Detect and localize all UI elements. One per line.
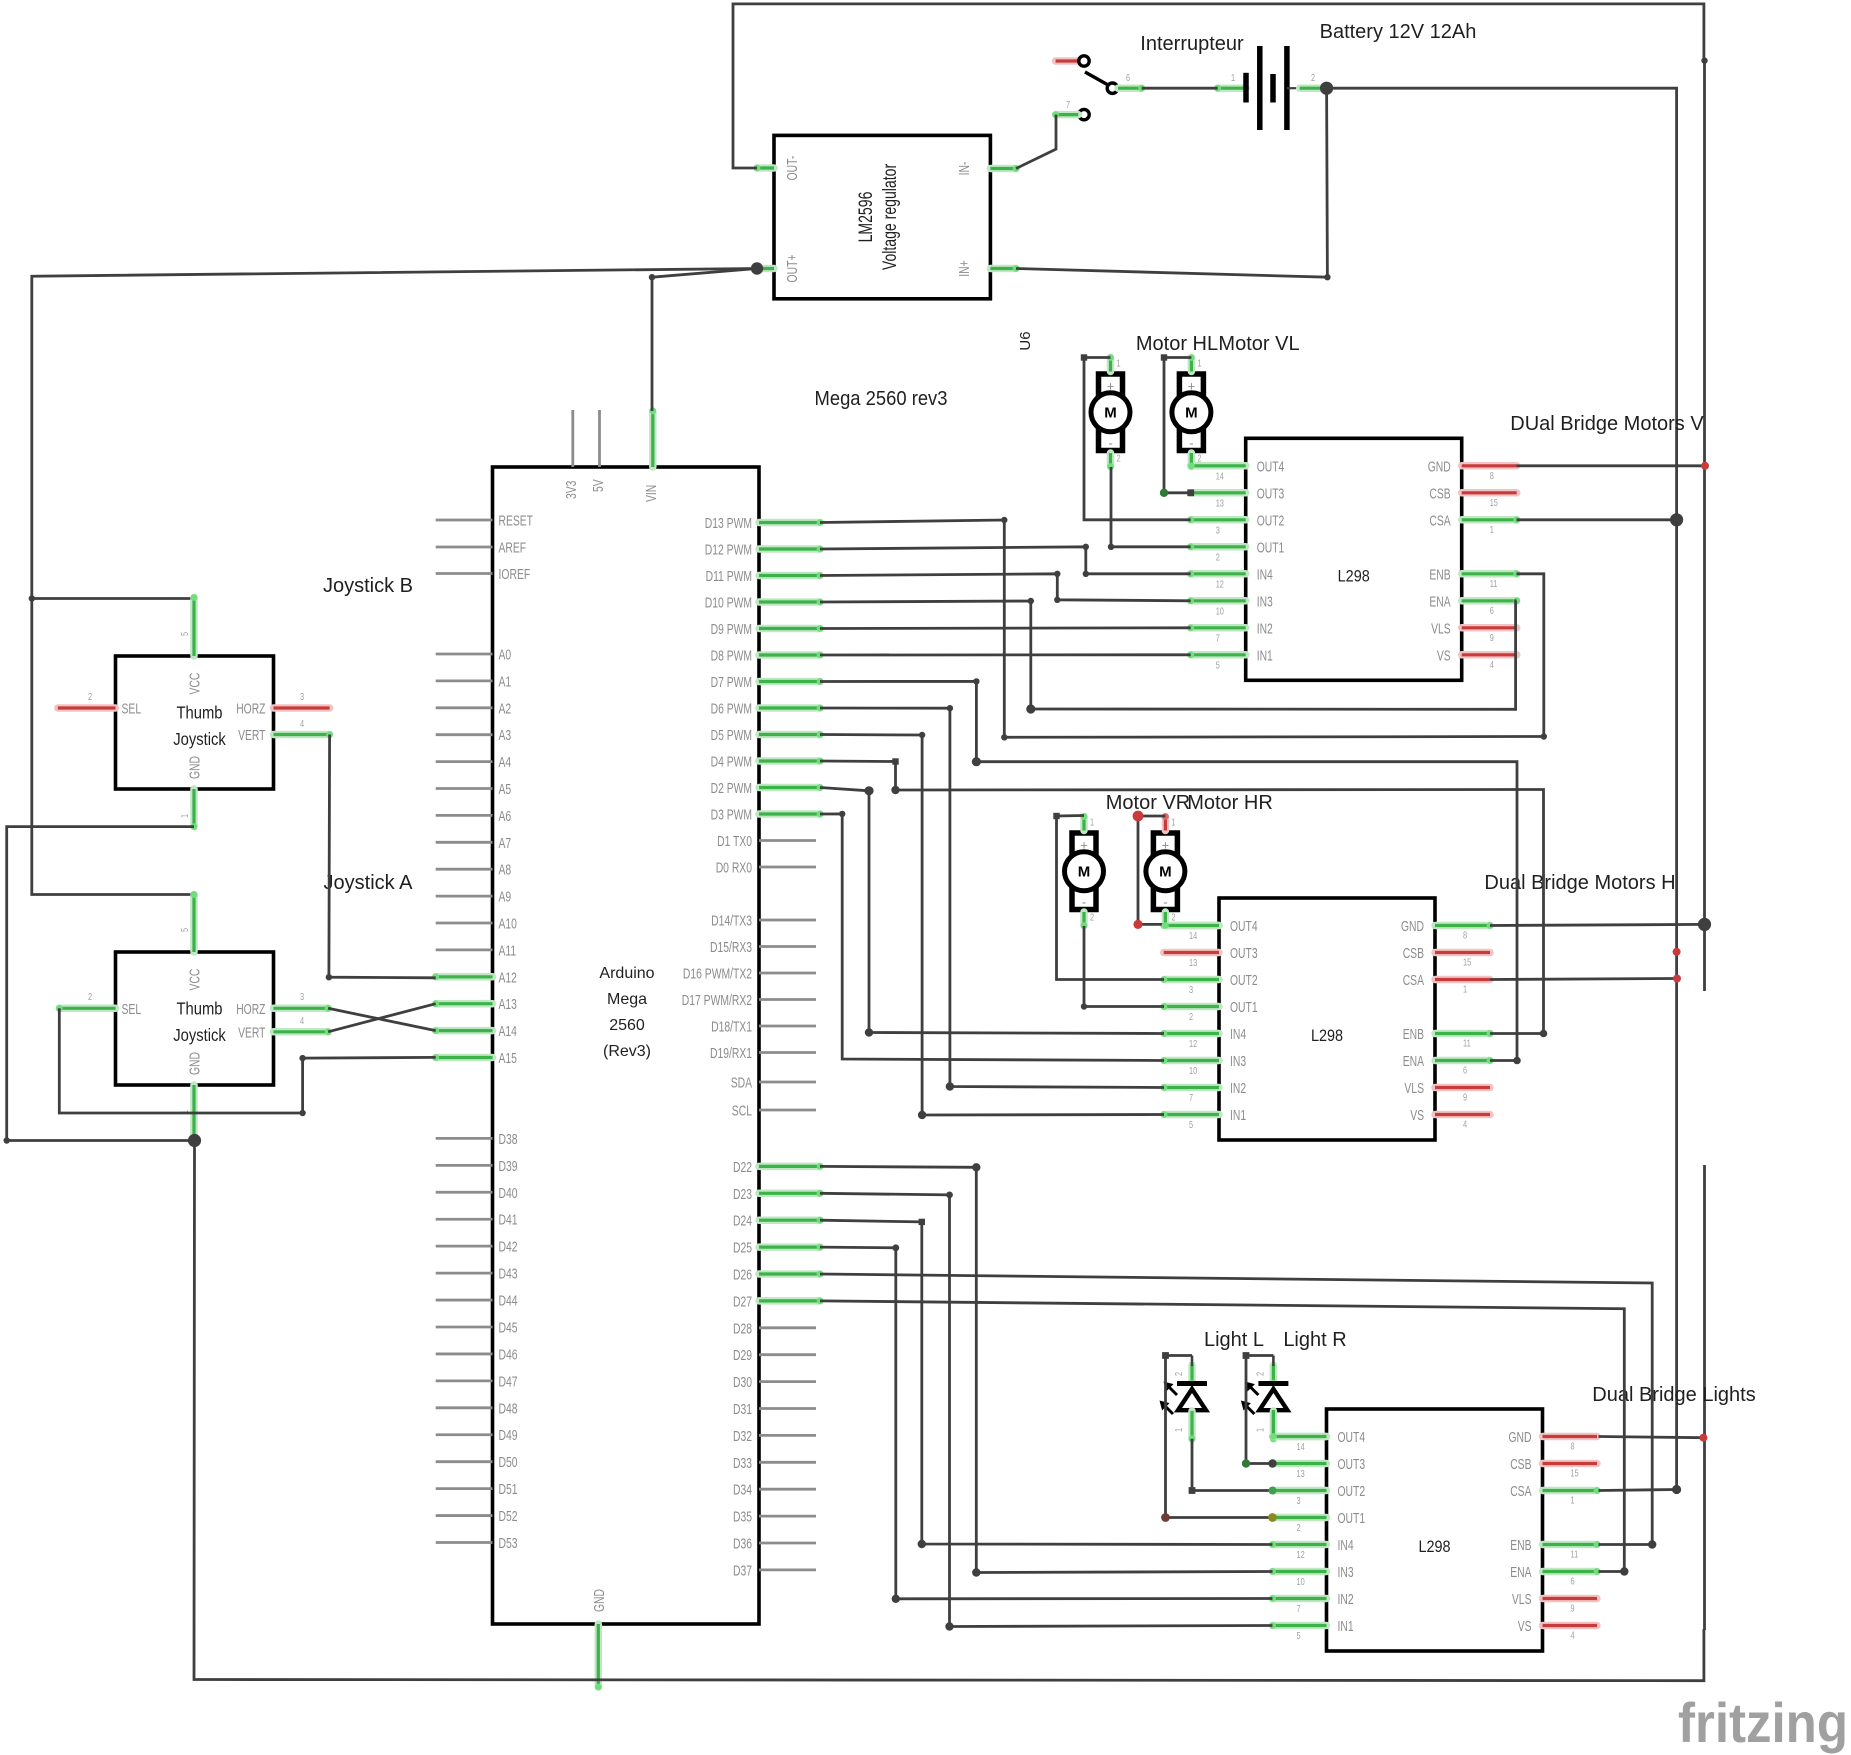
svg-text:A3: A3 bbox=[499, 728, 512, 744]
svg-text:14: 14 bbox=[1216, 470, 1224, 482]
wire D5 to IN1-H bbox=[820, 735, 1164, 1116]
Arduino pin D7 PWM bbox=[759, 678, 820, 686]
svg-text:A0: A0 bbox=[499, 648, 512, 664]
red endpoint 12V bus segment bbox=[1673, 948, 1681, 956]
svg-text:6: 6 bbox=[1571, 1576, 1575, 1588]
L298-V pin IN2 bbox=[1191, 624, 1246, 632]
svg-text:SEL: SEL bbox=[122, 1002, 142, 1018]
svg-text:IN2: IN2 bbox=[1230, 1081, 1246, 1097]
svg-text:IN3: IN3 bbox=[1230, 1054, 1246, 1070]
OUT2-L wire end bbox=[1269, 1487, 1277, 1495]
Arduino pin D16 PWM/TX2 bbox=[759, 972, 816, 975]
svg-text:A15: A15 bbox=[499, 1051, 517, 1067]
svg-text:D46: D46 bbox=[499, 1347, 518, 1363]
svg-text:ENA: ENA bbox=[1510, 1565, 1532, 1581]
bend ground loop bbox=[3, 1137, 9, 1143]
svg-text:1: 1 bbox=[1197, 358, 1201, 370]
svg-text:3: 3 bbox=[300, 691, 304, 703]
svg-text:D29: D29 bbox=[733, 1348, 752, 1364]
Arduino pin D31 bbox=[759, 1407, 816, 1410]
svg-text:D40: D40 bbox=[499, 1186, 518, 1202]
OUT+ junction node bbox=[751, 262, 763, 274]
wire CSA-V to 12V bus bbox=[1517, 518, 1677, 521]
LM2596 pin OUT+ bbox=[757, 265, 774, 273]
ground junction node bbox=[188, 1134, 201, 1147]
svg-text:L298: L298 bbox=[1338, 566, 1370, 585]
wire D22 to IN3-L bbox=[820, 1166, 1273, 1572]
Arduino pin IOREF bbox=[436, 572, 493, 575]
svg-text:2: 2 bbox=[1171, 912, 1175, 924]
wire motor HL pin2 to OUT1-V bbox=[1111, 467, 1191, 547]
svg-text:3V3: 3V3 bbox=[564, 481, 580, 499]
L298-L pin VS bbox=[1543, 1622, 1598, 1630]
svg-text:D47: D47 bbox=[499, 1374, 518, 1390]
svg-text:A12: A12 bbox=[499, 970, 517, 986]
L298-V pin OUT4 bbox=[1191, 462, 1246, 470]
svg-text:1: 1 bbox=[1463, 984, 1467, 996]
light R pin2 wire overlap bbox=[1272, 1356, 1275, 1367]
svg-text:D48: D48 bbox=[499, 1401, 518, 1417]
Arduino pin D6 PWM bbox=[759, 704, 820, 712]
svg-text:D24: D24 bbox=[733, 1214, 752, 1230]
battery long plate 1 bbox=[1257, 46, 1263, 130]
L298-H pin IN4 bbox=[1164, 1030, 1219, 1038]
bend VIN wire bbox=[649, 274, 655, 280]
bend D4 b bbox=[891, 786, 899, 794]
Arduino pin D11 PWM bbox=[759, 572, 820, 580]
svg-text:Thumb: Thumb bbox=[177, 999, 223, 1019]
svg-text:OUT1: OUT1 bbox=[1257, 540, 1285, 556]
L298-L pin OUT2 bbox=[1273, 1487, 1327, 1495]
svg-text:4: 4 bbox=[300, 718, 304, 730]
wire IN- to switch pin 7 bbox=[1016, 115, 1056, 169]
L298-H pin OUT3 bbox=[1164, 949, 1219, 957]
joystick B pin SEL bbox=[58, 704, 116, 712]
Arduino pin D34 bbox=[759, 1488, 816, 1491]
bend D6 a bbox=[947, 705, 953, 711]
svg-text:8: 8 bbox=[1490, 470, 1494, 482]
Arduino pin D28 bbox=[759, 1326, 816, 1329]
svg-text:A9: A9 bbox=[499, 890, 512, 906]
svg-text:IN1: IN1 bbox=[1230, 1108, 1246, 1124]
svg-text:5: 5 bbox=[179, 928, 191, 932]
bend D25 a bbox=[892, 1244, 899, 1251]
wire light L pin1 to OUT2-L bbox=[1192, 1439, 1273, 1491]
svg-text:D26: D26 bbox=[733, 1268, 752, 1284]
svg-text:5: 5 bbox=[1189, 1119, 1193, 1131]
svg-text:10: 10 bbox=[1216, 605, 1224, 617]
svg-text:D30: D30 bbox=[733, 1375, 752, 1391]
Arduino pin A8 bbox=[436, 868, 493, 871]
L298-V pin ENB bbox=[1462, 570, 1517, 578]
svg-text:2: 2 bbox=[1216, 551, 1220, 563]
Arduino pin D35 bbox=[759, 1515, 816, 1518]
LED light L light arrow 2 bbox=[1164, 1405, 1173, 1414]
joystick B pin VERT bbox=[274, 731, 330, 739]
ground bottom bus wire bbox=[194, 1141, 1704, 1681]
red endpoint motor HR wire bottom bbox=[1133, 920, 1142, 929]
wire light R pin2 to OUT3-L bbox=[1246, 1356, 1273, 1464]
OUT3-V wire end bbox=[1187, 489, 1194, 496]
Arduino pin D46 bbox=[436, 1353, 493, 1356]
wire joystick A SEL to A15 bbox=[59, 1008, 435, 1113]
red endpoint GND-L bbox=[1699, 1434, 1707, 1442]
svg-text:2: 2 bbox=[1090, 912, 1094, 924]
svg-text:GND: GND bbox=[1509, 1430, 1532, 1446]
svg-text:1: 1 bbox=[179, 814, 191, 818]
svg-text:IN4: IN4 bbox=[1338, 1538, 1354, 1554]
svg-text:Light R: Light R bbox=[1283, 1329, 1346, 1351]
svg-text:5: 5 bbox=[1216, 659, 1220, 671]
svg-text:11: 11 bbox=[1463, 1038, 1471, 1050]
L298-H pin GND bbox=[1435, 922, 1490, 930]
Arduino Mega 2560 body bbox=[493, 467, 760, 1624]
svg-text:IN2: IN2 bbox=[1338, 1592, 1354, 1608]
svg-text:D39: D39 bbox=[499, 1159, 518, 1175]
joystick B pin VCC bbox=[190, 598, 198, 657]
joystick B pin HORZ bbox=[274, 704, 330, 712]
svg-text:D7 PWM: D7 PWM bbox=[711, 675, 752, 691]
svg-text:A5: A5 bbox=[499, 782, 512, 798]
svg-text:Arduino: Arduino bbox=[599, 965, 654, 982]
svg-text:15: 15 bbox=[1463, 957, 1471, 969]
svg-text:VERT: VERT bbox=[238, 728, 265, 744]
wire D23 to IN1-L bbox=[820, 1193, 1273, 1626]
L298-L pin IN3 bbox=[1273, 1568, 1327, 1576]
wire junction to IN4-H bbox=[869, 791, 1164, 1034]
LED light L pin 2 cathode lead bbox=[1188, 1365, 1196, 1383]
wire motor HR pin2 to OUT4-H bbox=[1165, 922, 1219, 930]
svg-text:VS: VS bbox=[1410, 1108, 1424, 1124]
motor HL rotor bbox=[1091, 393, 1130, 432]
switch NC contact ring bbox=[1079, 56, 1089, 66]
svg-text:15: 15 bbox=[1490, 497, 1498, 509]
svg-text:D0 RX0: D0 RX0 bbox=[716, 861, 752, 877]
light L pin2 wire overlap bbox=[1191, 1356, 1194, 1367]
bend motor HL pin2 bbox=[1108, 544, 1114, 550]
bend light L pin1 bbox=[1189, 1487, 1196, 1494]
Arduino pin A7 bbox=[436, 841, 493, 844]
Arduino pin GND bbox=[595, 1624, 603, 1687]
Arduino pin D3 PWM bbox=[759, 810, 820, 818]
svg-text:GND: GND bbox=[188, 756, 204, 779]
Arduino pin D19/RX1 bbox=[759, 1051, 816, 1054]
svg-text:3: 3 bbox=[300, 991, 304, 1003]
svg-text:D35: D35 bbox=[733, 1510, 752, 1526]
bend motor VR pin1 bbox=[1053, 813, 1059, 819]
LED light L cathode bar bbox=[1177, 1381, 1207, 1386]
svg-text:D9 PWM: D9 PWM bbox=[711, 622, 752, 638]
svg-text:GND: GND bbox=[188, 1052, 204, 1075]
motor HL pin 2 bbox=[1107, 453, 1115, 467]
svg-text:Joystick: Joystick bbox=[173, 1025, 226, 1045]
svg-text:OUT4: OUT4 bbox=[1230, 919, 1258, 935]
red endpoint GND-V bbox=[1701, 462, 1709, 470]
svg-text:ENA: ENA bbox=[1429, 594, 1451, 610]
svg-text:-: - bbox=[1082, 895, 1086, 910]
Arduino pin D53 bbox=[436, 1541, 493, 1544]
svg-text:D49: D49 bbox=[499, 1428, 518, 1444]
L298-H pin IN3 bbox=[1164, 1057, 1219, 1065]
L298-H pin IN1 bbox=[1164, 1111, 1219, 1119]
wire joystick A VERT to A13 bbox=[328, 1004, 436, 1032]
bend A15 wire lower bbox=[299, 1110, 305, 1116]
bend D24 a bbox=[919, 1219, 925, 1225]
svg-text:1: 1 bbox=[1490, 524, 1494, 536]
wire D25 to IN2-L bbox=[820, 1247, 1273, 1599]
svg-text:OUT3: OUT3 bbox=[1338, 1457, 1366, 1473]
LED light R anode triangle bbox=[1259, 1389, 1287, 1410]
wire VCC rail to joystick B VCC bbox=[32, 597, 194, 600]
svg-text:D28: D28 bbox=[733, 1321, 752, 1337]
svg-text:10: 10 bbox=[1189, 1065, 1197, 1077]
LED light R light arrow 1 bbox=[1249, 1386, 1258, 1395]
svg-text:-: - bbox=[1163, 895, 1167, 910]
svg-text:D38: D38 bbox=[499, 1132, 518, 1148]
L298-V pin VS bbox=[1462, 651, 1517, 659]
svg-text:14: 14 bbox=[1297, 1441, 1305, 1453]
svg-text:OUT1: OUT1 bbox=[1338, 1511, 1366, 1527]
svg-text:2: 2 bbox=[1117, 453, 1121, 465]
svg-text:+: + bbox=[1080, 838, 1088, 853]
svg-text:Interrupteur: Interrupteur bbox=[1140, 33, 1244, 55]
svg-text:-: - bbox=[1108, 436, 1112, 451]
svg-text:+: + bbox=[1162, 838, 1170, 853]
VCC rail tap joint bbox=[29, 595, 35, 601]
L298-L pin IN1 bbox=[1273, 1622, 1327, 1630]
Arduino pin D10 PWM bbox=[759, 598, 820, 606]
red endpoint CSA-H bbox=[1673, 975, 1681, 983]
L298-V pin IN1 bbox=[1191, 651, 1246, 659]
Arduino pin D13 PWM bbox=[759, 519, 820, 527]
switch pin 6 stub bbox=[1118, 84, 1142, 92]
svg-text:D33: D33 bbox=[733, 1456, 752, 1472]
svg-text:CSB: CSB bbox=[1510, 1457, 1531, 1473]
bend light L pin2 bbox=[1162, 1352, 1169, 1359]
OUT3-L wire end bbox=[1268, 1459, 1276, 1467]
svg-text:Joystick A: Joystick A bbox=[324, 872, 414, 894]
wire battery junction to IN+ bbox=[1016, 88, 1327, 277]
wire D10 to ENA-V bbox=[820, 601, 1517, 710]
bend motor VR pin2 bbox=[1081, 1003, 1087, 1009]
svg-text:2: 2 bbox=[1311, 72, 1315, 84]
Arduino pin D30 bbox=[759, 1380, 816, 1383]
svg-text:2: 2 bbox=[88, 991, 92, 1003]
svg-text:Dual Bridge Motors H: Dual Bridge Motors H bbox=[1484, 872, 1675, 894]
svg-text:4: 4 bbox=[1571, 1630, 1575, 1642]
svg-text:D13 PWM: D13 PWM bbox=[705, 516, 752, 532]
Arduino pin D18/TX1 bbox=[759, 1025, 816, 1028]
wire D3 to IN3-H bbox=[820, 814, 1164, 1061]
svg-text:Mega 2560 rev3: Mega 2560 rev3 bbox=[815, 388, 948, 410]
LED light L pin 1 anode lead bbox=[1188, 1411, 1196, 1439]
Arduino pin D23 bbox=[759, 1190, 820, 1198]
Arduino pin A0 bbox=[436, 653, 493, 656]
svg-text:3: 3 bbox=[1216, 524, 1220, 536]
svg-text:13: 13 bbox=[1189, 957, 1197, 969]
svg-text:D43: D43 bbox=[499, 1267, 518, 1283]
svg-text:D23: D23 bbox=[733, 1187, 752, 1203]
wire CSA-H to 12V bus bbox=[1490, 979, 1677, 980]
Arduino pin D39 bbox=[436, 1164, 493, 1167]
svg-text:13: 13 bbox=[1216, 497, 1224, 509]
wire light L pin2 to OUT1-L bbox=[1166, 1356, 1273, 1518]
battery junction node bbox=[1320, 82, 1333, 95]
svg-text:OUT4: OUT4 bbox=[1257, 459, 1285, 475]
svg-text:2: 2 bbox=[1297, 1522, 1301, 1534]
Arduino pin A2 bbox=[436, 706, 493, 709]
Arduino pin D24 bbox=[759, 1216, 820, 1224]
Arduino pin D50 bbox=[436, 1460, 493, 1463]
svg-text:D11 PWM: D11 PWM bbox=[706, 569, 752, 585]
svg-text:1: 1 bbox=[1254, 1428, 1266, 1432]
wire OUT+ to VIN bbox=[652, 269, 757, 412]
L298-L pin OUT4 bbox=[1273, 1433, 1327, 1441]
bend A12 wire bbox=[326, 974, 332, 980]
Arduino pin D52 bbox=[436, 1514, 493, 1517]
svg-text:5: 5 bbox=[1297, 1630, 1301, 1642]
svg-text:M: M bbox=[1185, 405, 1198, 422]
switch lever bbox=[1085, 72, 1109, 86]
L298-L pin VLS bbox=[1543, 1595, 1598, 1603]
svg-text:RESET: RESET bbox=[499, 514, 534, 530]
svg-text:CSA: CSA bbox=[1429, 513, 1451, 529]
svg-text:HORZ: HORZ bbox=[236, 702, 265, 718]
battery pin 1 stub bbox=[1218, 84, 1246, 92]
wire switch pin6 to battery pin1 bbox=[1142, 87, 1218, 90]
L298-V pin ENA bbox=[1462, 597, 1517, 605]
svg-text:2: 2 bbox=[88, 691, 92, 703]
svg-text:D51: D51 bbox=[499, 1482, 518, 1498]
svg-text:8: 8 bbox=[1463, 930, 1467, 942]
bend light R pin2 bbox=[1243, 1352, 1250, 1359]
Arduino pin 3V3 bbox=[571, 410, 574, 467]
Arduino pin D32 bbox=[759, 1434, 816, 1437]
svg-text:11: 11 bbox=[1571, 1549, 1579, 1561]
wire D4 to ENB-H bbox=[820, 761, 1544, 1034]
svg-text:HORZ: HORZ bbox=[236, 1002, 265, 1018]
joystick A pin GND bbox=[190, 1085, 198, 1141]
joint light R pin1 bbox=[1270, 1433, 1277, 1440]
svg-text:D5 PWM: D5 PWM bbox=[711, 728, 752, 744]
Arduino pin D44 bbox=[436, 1299, 493, 1302]
svg-text:6: 6 bbox=[1463, 1065, 1467, 1077]
svg-text:5: 5 bbox=[179, 632, 191, 636]
svg-text:1: 1 bbox=[1117, 358, 1121, 370]
Arduino pin RESET bbox=[436, 519, 493, 522]
bend D10 b bbox=[1026, 704, 1035, 713]
L298-H pin CSB bbox=[1435, 949, 1490, 957]
svg-text:D18/TX1: D18/TX1 bbox=[711, 1020, 752, 1036]
svg-text:Light L: Light L bbox=[1204, 1329, 1264, 1351]
svg-text:4: 4 bbox=[1490, 659, 1494, 671]
motor VR pin 2 bbox=[1080, 912, 1088, 926]
wire joystick B GND loop bbox=[7, 827, 195, 1141]
svg-text:IN3: IN3 bbox=[1257, 594, 1273, 610]
battery long plate 2 bbox=[1284, 46, 1290, 130]
svg-text:VCC: VCC bbox=[188, 673, 204, 695]
LED light R light arrow 2 bbox=[1245, 1405, 1254, 1414]
L298-L pin IN4 bbox=[1273, 1541, 1327, 1549]
svg-text:3: 3 bbox=[1297, 1495, 1301, 1507]
svg-text:Joystick B: Joystick B bbox=[323, 575, 413, 597]
svg-text:+: + bbox=[1188, 379, 1196, 394]
svg-text:GND: GND bbox=[592, 1589, 608, 1612]
bend D5 a bbox=[919, 732, 925, 738]
svg-text:M: M bbox=[1104, 405, 1117, 422]
svg-text:15: 15 bbox=[1571, 1468, 1579, 1480]
motor HL pin 1 bbox=[1107, 358, 1115, 372]
Arduino pin A6 bbox=[436, 814, 493, 817]
svg-text:VLS: VLS bbox=[1512, 1592, 1532, 1608]
svg-text:OUT3: OUT3 bbox=[1230, 946, 1258, 962]
svg-text:VERT: VERT bbox=[238, 1025, 265, 1041]
svg-text:11: 11 bbox=[1490, 578, 1498, 590]
bend IN4-H bbox=[865, 1028, 873, 1036]
L298-V pin VLS bbox=[1462, 624, 1517, 632]
wire D8 to IN1-V bbox=[820, 653, 1191, 656]
svg-text:10: 10 bbox=[1297, 1576, 1305, 1588]
svg-text:6: 6 bbox=[1126, 72, 1130, 84]
bend D4 a bbox=[892, 758, 898, 764]
motor HR pin 1 bbox=[1162, 817, 1170, 831]
Arduino pin A13 bbox=[436, 1000, 493, 1008]
battery short plate 2 bbox=[1270, 74, 1276, 103]
svg-text:OUT2: OUT2 bbox=[1338, 1484, 1366, 1500]
svg-text:Joystick: Joystick bbox=[173, 729, 226, 749]
L298-V pin OUT1 bbox=[1191, 543, 1246, 551]
bend D25 b bbox=[892, 1595, 900, 1603]
Arduino pin D40 bbox=[436, 1191, 493, 1194]
L298-H pin ENB bbox=[1435, 1030, 1490, 1038]
battery pin 2 stub bbox=[1300, 84, 1327, 92]
svg-text:D31: D31 bbox=[733, 1402, 752, 1418]
svg-text:D3 PWM: D3 PWM bbox=[711, 808, 752, 824]
L298-L pin ENB bbox=[1543, 1541, 1598, 1549]
svg-text:D44: D44 bbox=[499, 1294, 518, 1310]
wire D6 to IN2-H bbox=[820, 708, 1164, 1088]
Arduino pin D51 bbox=[436, 1487, 493, 1490]
svg-text:U6: U6 bbox=[1017, 331, 1034, 350]
bend D12 b bbox=[1083, 571, 1089, 577]
svg-text:7: 7 bbox=[1216, 632, 1220, 644]
Arduino pin D36 bbox=[759, 1542, 816, 1545]
Arduino pin D49 bbox=[436, 1433, 493, 1436]
Arduino pin D15/RX3 bbox=[759, 945, 816, 948]
motor VR pin 1 bbox=[1080, 817, 1088, 831]
Arduino pin D47 bbox=[436, 1379, 493, 1382]
wire light R pin1 to OUT4-L bbox=[1273, 1433, 1326, 1441]
motor VL rotor bbox=[1172, 393, 1211, 432]
bend D6 b bbox=[946, 1082, 954, 1090]
svg-text:A8: A8 bbox=[499, 863, 512, 879]
junction GND-H node bbox=[1698, 918, 1711, 931]
svg-text:OUT2: OUT2 bbox=[1257, 513, 1285, 529]
svg-text:2: 2 bbox=[1189, 1011, 1193, 1023]
svg-text:fritzing: fritzing bbox=[1678, 1691, 1848, 1754]
svg-text:D32: D32 bbox=[733, 1429, 752, 1445]
bend D5 b bbox=[918, 1111, 926, 1119]
Arduino pin A5 bbox=[436, 787, 493, 790]
thumb joystick B body bbox=[116, 656, 274, 789]
bend motor VL pin1 bbox=[1161, 354, 1167, 360]
L298 dual bridge motors V body bbox=[1246, 438, 1462, 680]
svg-text:VS: VS bbox=[1518, 1619, 1532, 1635]
svg-text:8: 8 bbox=[1571, 1441, 1575, 1453]
svg-text:SEL: SEL bbox=[122, 702, 142, 718]
svg-text:AREF: AREF bbox=[499, 541, 527, 557]
svg-text:3: 3 bbox=[1189, 984, 1193, 996]
